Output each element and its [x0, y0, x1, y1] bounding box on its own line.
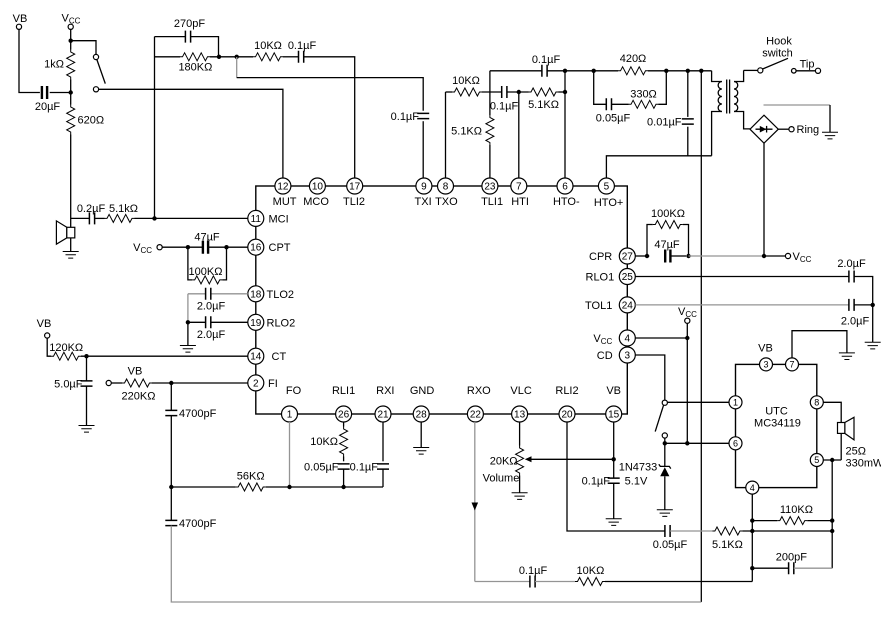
ground (volume) [512, 493, 528, 500]
pin 18 TLO2 [248, 286, 294, 302]
svg-text:2.0µF: 2.0µF [197, 301, 226, 313]
svg-text:110KΩ: 110KΩ [780, 504, 813, 516]
svg-text:CPR: CPR [589, 251, 612, 263]
capacitor 2.0uF (TOL1) [841, 299, 873, 328]
capacitor 47uF (CPR) [654, 239, 686, 263]
node CPR right [686, 254, 690, 258]
speaker 25ohm 330mW [838, 417, 881, 469]
bridge rectifier diamond [750, 115, 778, 143]
IC U1 body [256, 186, 628, 414]
wire U2 pin 7 to ground [792, 331, 847, 358]
resistor 56K [171, 471, 383, 492]
capacitor 0.05uF (330 branch) [594, 71, 631, 125]
node 5.1K right [830, 529, 834, 533]
node on pin6 line [563, 90, 567, 94]
svg-text:56KΩ: 56KΩ [237, 471, 265, 483]
svg-text:100KΩ: 100KΩ [651, 208, 685, 220]
wire CD pin 3 to switch [635, 355, 665, 400]
node pin5 tap [830, 458, 834, 462]
resistor 5.1k (mic) [105, 203, 139, 222]
svg-text:FO: FO [286, 385, 302, 397]
svg-text:VB: VB [128, 366, 143, 378]
capacitor 0.1uF (bottom) [475, 565, 575, 588]
svg-text:TLI2: TLI2 [343, 196, 365, 208]
svg-text:GND: GND [410, 385, 435, 397]
svg-text:Ring: Ring [797, 124, 820, 136]
pin 10 MCO [303, 178, 329, 208]
svg-text:TXI: TXI [415, 196, 432, 208]
svg-text:23: 23 [484, 182, 496, 193]
node 2.0uF join [871, 303, 875, 307]
ground (zener) [657, 510, 673, 517]
pin 27 CPR [589, 248, 635, 264]
node FI/4700pF [169, 381, 173, 385]
svg-text:10KΩ: 10KΩ [254, 40, 282, 52]
svg-text:47µF: 47µF [654, 239, 680, 251]
wire Vcc down [70, 29, 72, 49]
svg-text:0.1µF: 0.1µF [350, 462, 379, 474]
svg-text:3: 3 [763, 360, 768, 370]
zener 1N4733 5.1V [619, 443, 671, 510]
wire GND pin 28 [420, 422, 422, 448]
svg-text:20: 20 [561, 410, 573, 421]
svg-text:0.05µF: 0.05µF [304, 462, 339, 474]
pin 28 GND [410, 385, 435, 422]
svg-text:0.1µF: 0.1µF [391, 111, 420, 123]
wire Vcc pin 4 [635, 337, 687, 339]
wire TXO pin 8 up [445, 92, 447, 178]
svg-text:22: 22 [470, 410, 482, 421]
svg-text:0.1µF: 0.1µF [288, 40, 317, 52]
svg-text:Volume: Volume [483, 473, 520, 485]
resistor 10K (TXO) [446, 75, 483, 96]
svg-text:5.1kΩ: 5.1kΩ [109, 203, 138, 215]
svg-text:RLI2: RLI2 [555, 385, 578, 397]
wire to MCI pin 11 [135, 217, 248, 219]
svg-text:4700pF: 4700pF [179, 408, 217, 420]
svg-text:MC34119: MC34119 [754, 418, 801, 430]
svg-text:3: 3 [625, 351, 631, 362]
wire HTO+ pin 5 to transformer [606, 156, 711, 178]
capacitor 20uF [35, 86, 71, 113]
svg-text:switch: switch [762, 48, 793, 60]
svg-text:17: 17 [349, 182, 361, 193]
svg-text:47µF: 47µF [194, 232, 220, 244]
IC U2 MC34119 body [736, 364, 817, 487]
mute switch [93, 54, 105, 92]
svg-text:RXI: RXI [376, 385, 394, 397]
resistor 100K (CPT) [188, 247, 227, 284]
capacitor 4700pF (upper) [165, 383, 216, 487]
node 5.1K/pin4 [750, 529, 754, 533]
node FO/56K [287, 485, 291, 489]
resistor 10K (RLI1) [310, 422, 347, 461]
svg-text:RLO1: RLO1 [586, 272, 615, 284]
svg-text:5.0µF: 5.0µF [54, 379, 83, 391]
pin 19 RLO2 [248, 314, 295, 330]
svg-text:VB: VB [606, 385, 621, 397]
node 20uF/620 [69, 90, 73, 94]
capacitor 2.0uF (RLO2) [188, 316, 248, 341]
svg-text:9: 9 [421, 182, 427, 193]
capacitor 0.1uF (TLI2) [283, 40, 355, 178]
wire 180K left rail [154, 37, 156, 219]
pin 17 TLI2 [343, 178, 365, 208]
node HTI [517, 90, 521, 94]
svg-text:8: 8 [814, 398, 819, 408]
svg-text:TOL1: TOL1 [585, 300, 612, 312]
svg-text:CPT: CPT [269, 242, 291, 254]
pin 21 RXI [375, 385, 394, 422]
node 47uF right [224, 245, 228, 249]
svg-text:7: 7 [516, 182, 522, 193]
U2 pin 4 [746, 481, 759, 494]
svg-text:11: 11 [251, 214, 262, 225]
node CD/zener [663, 441, 667, 445]
svg-text:620Ω: 620Ω [78, 115, 105, 127]
wire node to node [210, 56, 253, 58]
node RLI1/56K [341, 485, 345, 489]
node bridge/Vcc [762, 254, 766, 258]
svg-text:VB: VB [37, 318, 52, 330]
pin 8 TXO [435, 178, 458, 208]
wire node to TXI cap [237, 78, 424, 111]
pin 12 MUT [273, 178, 297, 208]
resistor 420 [618, 53, 648, 75]
svg-text:13: 13 [514, 410, 526, 421]
svg-text:FI: FI [268, 378, 278, 390]
svg-text:21: 21 [377, 410, 389, 421]
svg-text:25: 25 [622, 272, 634, 283]
capacitor 0.1uF (TXI) [391, 111, 430, 178]
U2 pin 7 [786, 358, 799, 371]
pin 4 Vcc [593, 330, 635, 346]
capacitor 2.0uF (TLO2) [188, 288, 248, 323]
svg-text:0.01µF: 0.01µF [647, 117, 682, 129]
svg-text:8: 8 [443, 182, 449, 193]
pin 20 RLI2 [555, 385, 578, 422]
capacitor 270pF [155, 18, 219, 57]
svg-text:VB: VB [758, 343, 773, 355]
svg-text:RXO: RXO [467, 385, 491, 397]
wire pin5 tap down [831, 460, 833, 568]
node Vcc/pin4 [685, 336, 689, 340]
node 200pF left [750, 566, 754, 570]
svg-text:Hook: Hook [766, 36, 792, 48]
node 330 right [664, 69, 668, 73]
wire CPR pin 27 [635, 255, 649, 257]
svg-text:14: 14 [250, 352, 262, 363]
svg-text:18: 18 [250, 289, 262, 300]
ground (2.0uF left) [180, 346, 196, 353]
terminal VB (FI) [106, 366, 142, 386]
terminal VB (top-left) [13, 13, 28, 29]
potentiometer 20K Volume [483, 422, 524, 493]
terminal VB (CT) [37, 318, 52, 356]
node 2.0uF join left [186, 320, 190, 324]
node 110K right [830, 518, 834, 522]
wire RLO1 pin 25 [635, 276, 849, 278]
svg-text:20µF: 20µF [35, 101, 61, 113]
svg-text:HTI: HTI [511, 196, 529, 208]
resistor 5.1K (HTI-HTO-) [528, 88, 565, 111]
resistor 330 [629, 71, 667, 109]
svg-text:0.1µF: 0.1µF [490, 101, 519, 113]
pin 25 RLO1 [586, 269, 636, 285]
svg-text:5.1KΩ: 5.1KΩ [712, 539, 743, 551]
svg-text:5: 5 [814, 455, 819, 465]
svg-text:10: 10 [312, 182, 324, 193]
svg-text:10KΩ: 10KΩ [577, 565, 605, 577]
pin 6 HTO- [553, 178, 580, 208]
U2 pin 6 [729, 437, 742, 450]
ground (U2 pin7) [839, 353, 855, 360]
svg-text:330Ω: 330Ω [630, 89, 657, 101]
node 330 left [592, 69, 596, 73]
hook switch [744, 36, 793, 74]
svg-text:Tip: Tip [800, 59, 815, 71]
ground (5.0uF) [79, 426, 95, 433]
node CPR left [645, 254, 649, 258]
svg-text:27: 27 [622, 252, 634, 263]
svg-text:0.1µF: 0.1µF [582, 476, 611, 488]
ground (pin 28) [413, 448, 429, 455]
node pin6/rail [563, 69, 567, 73]
svg-text:5.1KΩ: 5.1KΩ [451, 126, 482, 138]
ground (top right) [822, 132, 838, 139]
ground (microphone) [63, 252, 79, 259]
svg-text:330mW: 330mW [846, 458, 881, 470]
microphone speaker symbol [56, 221, 74, 252]
wire U2 pin 1 to CD switch [667, 401, 729, 403]
svg-text:CT: CT [272, 351, 287, 363]
U2 pin 1 [729, 396, 742, 409]
capacitor 0.1uF (RXI) [350, 422, 389, 487]
terminal Tip [792, 59, 821, 74]
wire gray TOL1 pin 24 [635, 304, 849, 306]
pin 11 MCI [248, 210, 289, 226]
node 0.01uF [686, 69, 690, 73]
resistor 180K [155, 53, 213, 74]
pin 24 TOL1 [585, 297, 635, 313]
pin 26 RLI1 [332, 385, 355, 422]
svg-text:270pF: 270pF [174, 18, 205, 30]
resistor 1k [44, 50, 75, 80]
node 110K left [750, 518, 754, 522]
wire VB pin 15 down [613, 422, 615, 478]
svg-text:19: 19 [250, 318, 262, 329]
svg-text:5.1V: 5.1V [625, 476, 648, 488]
svg-text:0.05µF: 0.05µF [653, 539, 688, 551]
pin 15 VB [606, 385, 622, 422]
pin 23 TLI1 [481, 178, 503, 208]
pin 7 HTI [511, 178, 529, 208]
svg-text:2.0µF: 2.0µF [197, 329, 226, 341]
wire U2 pin 4 down [751, 494, 753, 581]
svg-text:4: 4 [750, 483, 755, 493]
svg-text:0.05µF: 0.05µF [596, 113, 631, 125]
svg-text:HTO-: HTO- [553, 196, 580, 208]
resistor 120K [49, 342, 248, 360]
svg-text:16: 16 [250, 243, 262, 254]
svg-text:MCO: MCO [303, 196, 329, 208]
pin 5 HTO+ [594, 178, 623, 209]
capacitor 0.01uF [647, 71, 694, 156]
svg-text:26: 26 [338, 410, 350, 421]
svg-text:RLI1: RLI1 [332, 385, 355, 397]
capacitor 0.05uF (RLI2) [653, 525, 688, 551]
capacitor 47uF (CPT) [194, 232, 247, 254]
pin 3 CD [597, 347, 636, 363]
svg-text:VLC: VLC [510, 385, 531, 397]
resistor 5.1K (bottom) [712, 527, 832, 551]
wire to MC pin 6 [665, 442, 729, 444]
svg-text:10KΩ: 10KΩ [452, 75, 480, 87]
resistor 10K (bottom) [575, 565, 752, 586]
wire mute switch to MUT pin 12 [99, 89, 283, 178]
svg-text:TXO: TXO [435, 196, 458, 208]
pin 14 CT [248, 348, 287, 364]
terminal Vcc (right) [764, 251, 812, 264]
node CT/5.0uF [84, 354, 88, 358]
wire gray CPR to bridge node [689, 255, 765, 257]
svg-text:6: 6 [562, 182, 568, 193]
wire HTI pin 7 up [518, 92, 520, 178]
arrow (RXO direction) [472, 503, 479, 511]
svg-text:4: 4 [625, 334, 631, 345]
resistor 110K [752, 504, 832, 525]
wire down to ground [829, 105, 831, 132]
svg-text:220KΩ: 220KΩ [122, 391, 156, 403]
svg-text:VB: VB [13, 13, 28, 25]
ground (pin 15) [606, 519, 622, 526]
svg-text:0.1µF: 0.1µF [519, 565, 548, 577]
svg-text:200pF: 200pF [776, 552, 807, 564]
capacitor 4700pF (lower) [165, 487, 701, 602]
node line vertical [699, 69, 703, 73]
svg-text:5: 5 [604, 182, 610, 193]
pin 13 VLC [510, 385, 531, 422]
pin 9 TXI [415, 178, 432, 208]
wire 1k to 620 node [70, 80, 72, 105]
U2 pin 8 [810, 396, 823, 409]
capacitor 0.05uF (RLI1) [304, 462, 350, 488]
capacitor 5.0uF [54, 356, 92, 425]
svg-text:TLI1: TLI1 [481, 196, 503, 208]
svg-text:1: 1 [287, 410, 293, 421]
capacitor 0.1uF (HTI) [482, 86, 529, 113]
pin 1 FO [282, 385, 302, 422]
wire top rail [490, 70, 712, 72]
node 47uF left [186, 245, 190, 249]
transformer T1 [712, 70, 750, 155]
capacitor 0.1uF (VB) [582, 476, 620, 519]
wire gray 0.05uF to 5.1K [670, 530, 712, 532]
svg-text:12: 12 [277, 182, 289, 193]
svg-text:TLO2: TLO2 [267, 289, 295, 301]
node MCO branch [235, 55, 239, 59]
capacitor 0.2uF [71, 203, 106, 224]
U2 pin 3 [760, 358, 773, 371]
resistor 100K (CPR) [647, 208, 689, 256]
wire U2 pin 8 to speaker [823, 402, 841, 422]
svg-text:UTC: UTC [765, 406, 788, 418]
svg-text:4700pF: 4700pF [179, 518, 217, 530]
pin 22 RXO [467, 385, 491, 422]
svg-text:MUT: MUT [273, 196, 297, 208]
svg-text:1: 1 [733, 398, 738, 408]
terminal Ring [778, 124, 819, 136]
svg-text:180KΩ: 180KΩ [178, 62, 212, 74]
node 270pF/180K [217, 55, 221, 59]
wire bridge bottom to CPR line [763, 143, 765, 256]
svg-text:25Ω: 25Ω [846, 446, 866, 458]
wire gray RXO pin 22 down [474, 422, 476, 582]
svg-text:420Ω: 420Ω [620, 53, 647, 65]
svg-text:100KΩ: 100KΩ [189, 266, 223, 278]
svg-text:15: 15 [608, 410, 620, 421]
node Vcc/pin6 line [685, 441, 689, 445]
svg-text:2.0µF: 2.0µF [841, 316, 870, 328]
terminal Vcc (CPT) [133, 242, 203, 255]
wire gray drop from node [236, 57, 238, 78]
svg-text:0.2µF: 0.2µF [77, 203, 106, 215]
node 56K left [169, 485, 173, 489]
svg-text:2.0µF: 2.0µF [837, 258, 866, 270]
svg-text:5.1KΩ: 5.1KΩ [528, 99, 559, 111]
pin 16 CPT [248, 239, 291, 255]
capacitor 0.1uF (rail) [532, 54, 561, 77]
wire gray to ground (top right) [764, 104, 831, 106]
node wiper/pin15 [612, 457, 616, 461]
svg-text:CD: CD [597, 350, 613, 362]
wire HTO- pin 6 up to rail [564, 71, 566, 178]
wire RLI2 pin 20 down [567, 422, 665, 531]
ground (2.0uF) [865, 342, 881, 349]
wire node to mute switch [71, 41, 96, 55]
svg-text:MCI: MCI [269, 213, 289, 225]
svg-text:6: 6 [733, 439, 738, 449]
resistor 220K [122, 379, 248, 403]
svg-text:1kΩ: 1kΩ [44, 59, 64, 71]
wiper wire with arrow [525, 456, 614, 462]
capacitor 2.0uF (RLO1) [837, 258, 872, 342]
svg-text:2: 2 [253, 378, 259, 389]
wire long vertical (line side) [700, 71, 702, 602]
svg-text:20KΩ: 20KΩ [490, 456, 518, 468]
resistor 5.1K vertical (TLI1) [451, 71, 494, 178]
resistor 10K (TLI2) [253, 40, 283, 61]
wire 620 down to microphone [70, 135, 72, 228]
terminal Vcc (middle) [678, 306, 697, 443]
svg-text:120KΩ: 120KΩ [49, 342, 83, 354]
resistor 620 [67, 105, 104, 135]
svg-text:24: 24 [622, 300, 634, 311]
svg-text:RLO2: RLO2 [267, 317, 296, 329]
terminal Vcc (top-left) [62, 13, 81, 30]
svg-text:HTO+: HTO+ [594, 197, 623, 209]
pin 2 FI [248, 375, 278, 391]
wire gray FO pin 1 down [289, 422, 291, 487]
CD switch [655, 400, 667, 443]
wire to ground [187, 322, 189, 345]
wire speaker to U2 pin 5 [823, 459, 841, 461]
svg-text:28: 28 [416, 410, 428, 421]
U2 pin 5 [810, 454, 823, 467]
capacitor 200pF [752, 552, 832, 575]
svg-text:0.1µF: 0.1µF [532, 54, 561, 66]
node Vcc/1k/switch [69, 39, 73, 43]
